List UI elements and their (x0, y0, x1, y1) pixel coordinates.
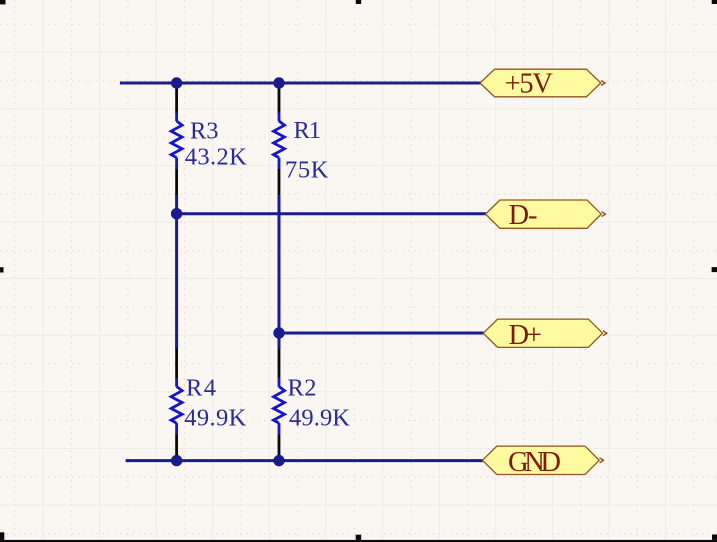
D+ port outline (483, 319, 602, 347)
border tick right-middle (712, 267, 717, 272)
border tick bottom-middle (356, 535, 362, 540)
svg-text:49.9K: 49.9K (289, 404, 350, 431)
sheet border bottom line (0, 540, 717, 542)
junction GND-left (171, 455, 182, 466)
wire GND horizontal (126, 459, 483, 462)
svg-text:D-: D- (509, 200, 538, 231)
port D- (486, 200, 606, 231)
GND port outline (482, 446, 599, 474)
D- port tip arrow (602, 212, 606, 217)
resistor R3 (171, 83, 247, 195)
R1 pin 2 (278, 169, 281, 195)
wire vertical net B (x=279) R1 to D+ (278, 195, 281, 349)
junction top-left (171, 77, 182, 88)
junction top-right (273, 77, 284, 88)
R2 pin 2 (278, 435, 281, 461)
resistor R2 (274, 349, 351, 461)
svg-text:49.9K: 49.9K (184, 404, 246, 431)
R2 body (278, 378, 281, 387)
R3 pin 1 (175, 83, 178, 113)
port D+ (483, 319, 607, 351)
svg-text:GND: GND (508, 447, 561, 478)
border tick top-middle (356, 0, 361, 4)
D+ port tip arrow (603, 331, 607, 336)
wire D+ horizontal (279, 332, 484, 335)
D- port outline (486, 200, 602, 228)
R3 pin 2 (175, 169, 178, 195)
R3 body (175, 113, 178, 122)
GND port tip arrow (600, 458, 604, 463)
wire vertical net A (x=176.6) R3 to D- (175, 195, 178, 214)
wire +5V horizontal (120, 82, 481, 85)
junction D+ (273, 327, 284, 338)
svg-text:D+: D+ (509, 320, 543, 351)
R4 body (175, 378, 178, 387)
svg-text:+5V: +5V (505, 68, 553, 99)
border tick top-right (712, 0, 717, 4)
+5V port tip arrow (601, 81, 605, 86)
svg-text:R4: R4 (186, 374, 216, 401)
svg-text:R3: R3 (190, 117, 219, 144)
R4 pin 1 (175, 349, 178, 379)
R1 pin 1 (278, 83, 281, 113)
wire D- horizontal (177, 212, 486, 215)
junction GND-right (273, 455, 284, 466)
svg-text:43.2K: 43.2K (185, 144, 247, 171)
svg-text:R2: R2 (288, 374, 317, 401)
border tick bottom-right (712, 535, 717, 540)
wire vertical net A D- down to R4 (175, 214, 178, 349)
border tick bottom-left (0, 532, 4, 540)
R4 pin 2 (175, 435, 178, 461)
R2 pin 1 (278, 349, 281, 379)
+5V port outline (480, 69, 601, 97)
svg-text:75K: 75K (285, 157, 329, 184)
junction D- (171, 208, 182, 219)
svg-text:R1: R1 (294, 117, 322, 144)
border tick left-middle (0, 267, 4, 272)
border tick top-left (0, 0, 6, 4)
resistor R1 (274, 83, 329, 195)
R1 body (278, 113, 281, 122)
port GND (482, 446, 603, 478)
resistor R4 (171, 349, 246, 461)
port +5V (480, 68, 605, 99)
